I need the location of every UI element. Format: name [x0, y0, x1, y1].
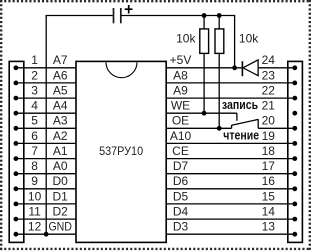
svg-text:A6: A6: [53, 68, 68, 82]
svg-text:+5V: +5V: [170, 53, 192, 67]
svg-text:1: 1: [31, 53, 38, 67]
svg-text:5: 5: [31, 114, 38, 128]
svg-text:8: 8: [31, 159, 38, 173]
svg-text:537РУ10: 537РУ10: [99, 144, 143, 158]
svg-text:7: 7: [31, 144, 38, 158]
svg-text:A7: A7: [53, 53, 68, 67]
svg-text:GND: GND: [48, 220, 72, 234]
svg-text:10k: 10k: [176, 32, 196, 46]
svg-text:A5: A5: [53, 84, 68, 98]
svg-text:CE: CE: [172, 144, 189, 158]
svg-text:D7: D7: [173, 159, 189, 173]
svg-text:2: 2: [31, 68, 38, 82]
svg-text:D0: D0: [53, 174, 69, 188]
svg-text:10k: 10k: [239, 32, 259, 46]
svg-text:A0: A0: [53, 159, 68, 173]
svg-text:4: 4: [31, 99, 38, 113]
svg-text:23: 23: [262, 68, 276, 82]
svg-text:24: 24: [262, 53, 276, 67]
svg-text:OE: OE: [172, 114, 189, 128]
svg-text:19: 19: [262, 129, 276, 143]
svg-text:16: 16: [262, 174, 276, 188]
svg-text:9: 9: [31, 174, 38, 188]
svg-text:15: 15: [262, 189, 276, 203]
svg-text:A3: A3: [53, 114, 68, 128]
svg-text:18: 18: [262, 144, 276, 158]
svg-text:A1: A1: [53, 144, 68, 158]
svg-text:22: 22: [262, 84, 276, 98]
svg-text:3: 3: [31, 84, 38, 98]
svg-text:запись: запись: [222, 98, 258, 112]
svg-text:A10: A10: [170, 129, 192, 143]
svg-text:D3: D3: [173, 220, 189, 234]
svg-text:D5: D5: [173, 189, 189, 203]
svg-text:13: 13: [262, 220, 276, 234]
svg-text:A4: A4: [53, 99, 68, 113]
svg-text:чтение: чтение: [223, 128, 259, 142]
svg-text:20: 20: [262, 114, 276, 128]
svg-text:WE: WE: [171, 99, 190, 113]
svg-text:14: 14: [262, 205, 276, 219]
svg-text:11: 11: [28, 205, 41, 219]
svg-text:D1: D1: [53, 189, 69, 203]
svg-text:A2: A2: [53, 129, 68, 143]
svg-text:D2: D2: [53, 205, 69, 219]
svg-text:6: 6: [31, 129, 38, 143]
svg-text:A8: A8: [173, 68, 188, 82]
svg-text:21: 21: [262, 99, 276, 113]
svg-text:D6: D6: [173, 174, 189, 188]
svg-text:D4: D4: [173, 205, 189, 219]
svg-text:10: 10: [28, 189, 42, 203]
svg-text:12: 12: [28, 220, 42, 234]
svg-text:A9: A9: [173, 84, 188, 98]
svg-text:17: 17: [262, 159, 276, 173]
